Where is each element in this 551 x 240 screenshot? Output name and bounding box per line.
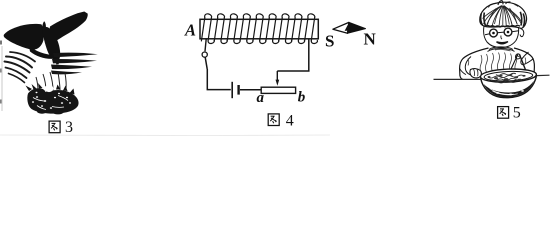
child hair bbox=[480, 1, 527, 29]
child face bbox=[484, 26, 524, 48]
scan bottom streak bbox=[0, 134, 330, 137]
grass lines above nest bbox=[36, 72, 66, 91]
caption 图3 glyph bbox=[49, 121, 60, 133]
scan edge artifact line bbox=[0, 41, 2, 112]
child sweater torso bbox=[460, 47, 535, 79]
svg-text:3: 3 bbox=[65, 119, 73, 136]
svg-text:N: N bbox=[364, 30, 377, 49]
rheostat body bbox=[261, 87, 295, 93]
nest dark blob bbox=[26, 83, 79, 114]
svg-text:5: 5 bbox=[513, 105, 521, 122]
table edge line left bbox=[434, 78, 484, 80]
svg-text:S: S bbox=[325, 32, 334, 51]
compass needle white half bbox=[333, 22, 349, 33]
slider arrow onto rheostat bbox=[276, 71, 280, 86]
table edge line right bbox=[537, 74, 550, 76]
sweater ribbing and steam squiggles bbox=[468, 53, 526, 74]
solenoid core rectangle bbox=[200, 19, 318, 39]
caption 图4 glyph bbox=[268, 114, 279, 126]
bowl bbox=[480, 68, 537, 99]
compass needle black half bbox=[348, 22, 366, 33]
tail feather blades bbox=[51, 53, 98, 75]
switch lever bbox=[205, 57, 207, 69]
compass needle fold shadow bbox=[345, 23, 351, 31]
right arm sleeve bbox=[521, 52, 534, 65]
wire coil left end down to switch bbox=[205, 39, 206, 52]
svg-text:A: A bbox=[184, 20, 196, 39]
svg-text:a: a bbox=[257, 90, 265, 106]
right hand bbox=[516, 54, 521, 59]
collar scribble bbox=[490, 48, 511, 51]
claw strokes bbox=[5, 52, 36, 83]
svg-text:b: b bbox=[298, 90, 306, 106]
wire switch to battery bbox=[207, 69, 231, 90]
chopsticks bbox=[508, 54, 528, 77]
left arm sleeve bbox=[460, 57, 473, 75]
wire battery to rheostat bbox=[240, 89, 261, 91]
switch open terminal circle bbox=[202, 52, 207, 57]
solenoid windings bbox=[201, 14, 317, 44]
bird silhouette (figure 3) bbox=[4, 12, 88, 65]
wire slider up and to coil right end bbox=[277, 39, 309, 71]
svg-text:4: 4 bbox=[286, 113, 294, 130]
battery cell bbox=[232, 82, 238, 98]
left hand at bowl bbox=[470, 69, 481, 78]
caption 图5 glyph bbox=[498, 107, 509, 119]
